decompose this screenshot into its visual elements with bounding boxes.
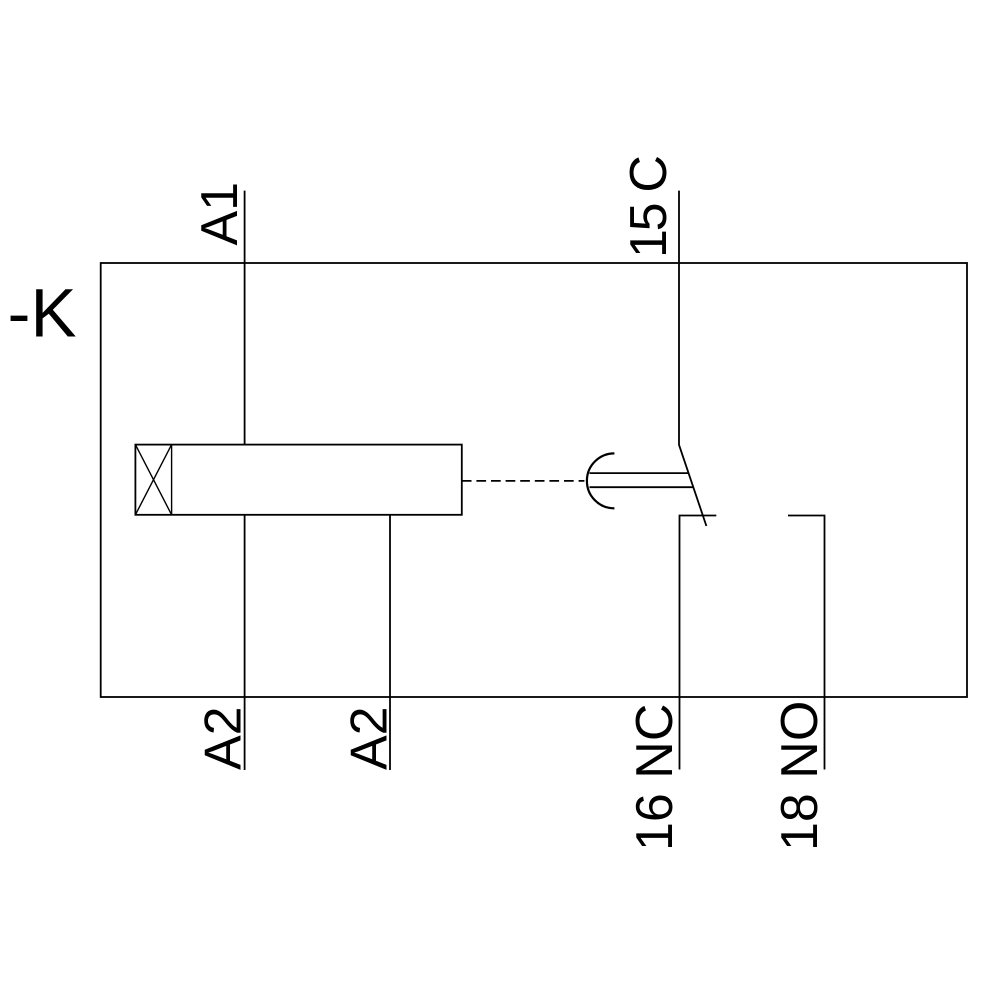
svg-text:A2: A2 (341, 706, 399, 770)
svg-text:-K: -K (8, 275, 77, 352)
svg-text:16 NC: 16 NC (626, 704, 684, 851)
svg-text:A1: A1 (191, 182, 249, 246)
svg-text:18 NO: 18 NO (771, 701, 829, 851)
svg-text:15 C: 15 C (620, 155, 678, 258)
svg-text:A2: A2 (195, 706, 253, 770)
